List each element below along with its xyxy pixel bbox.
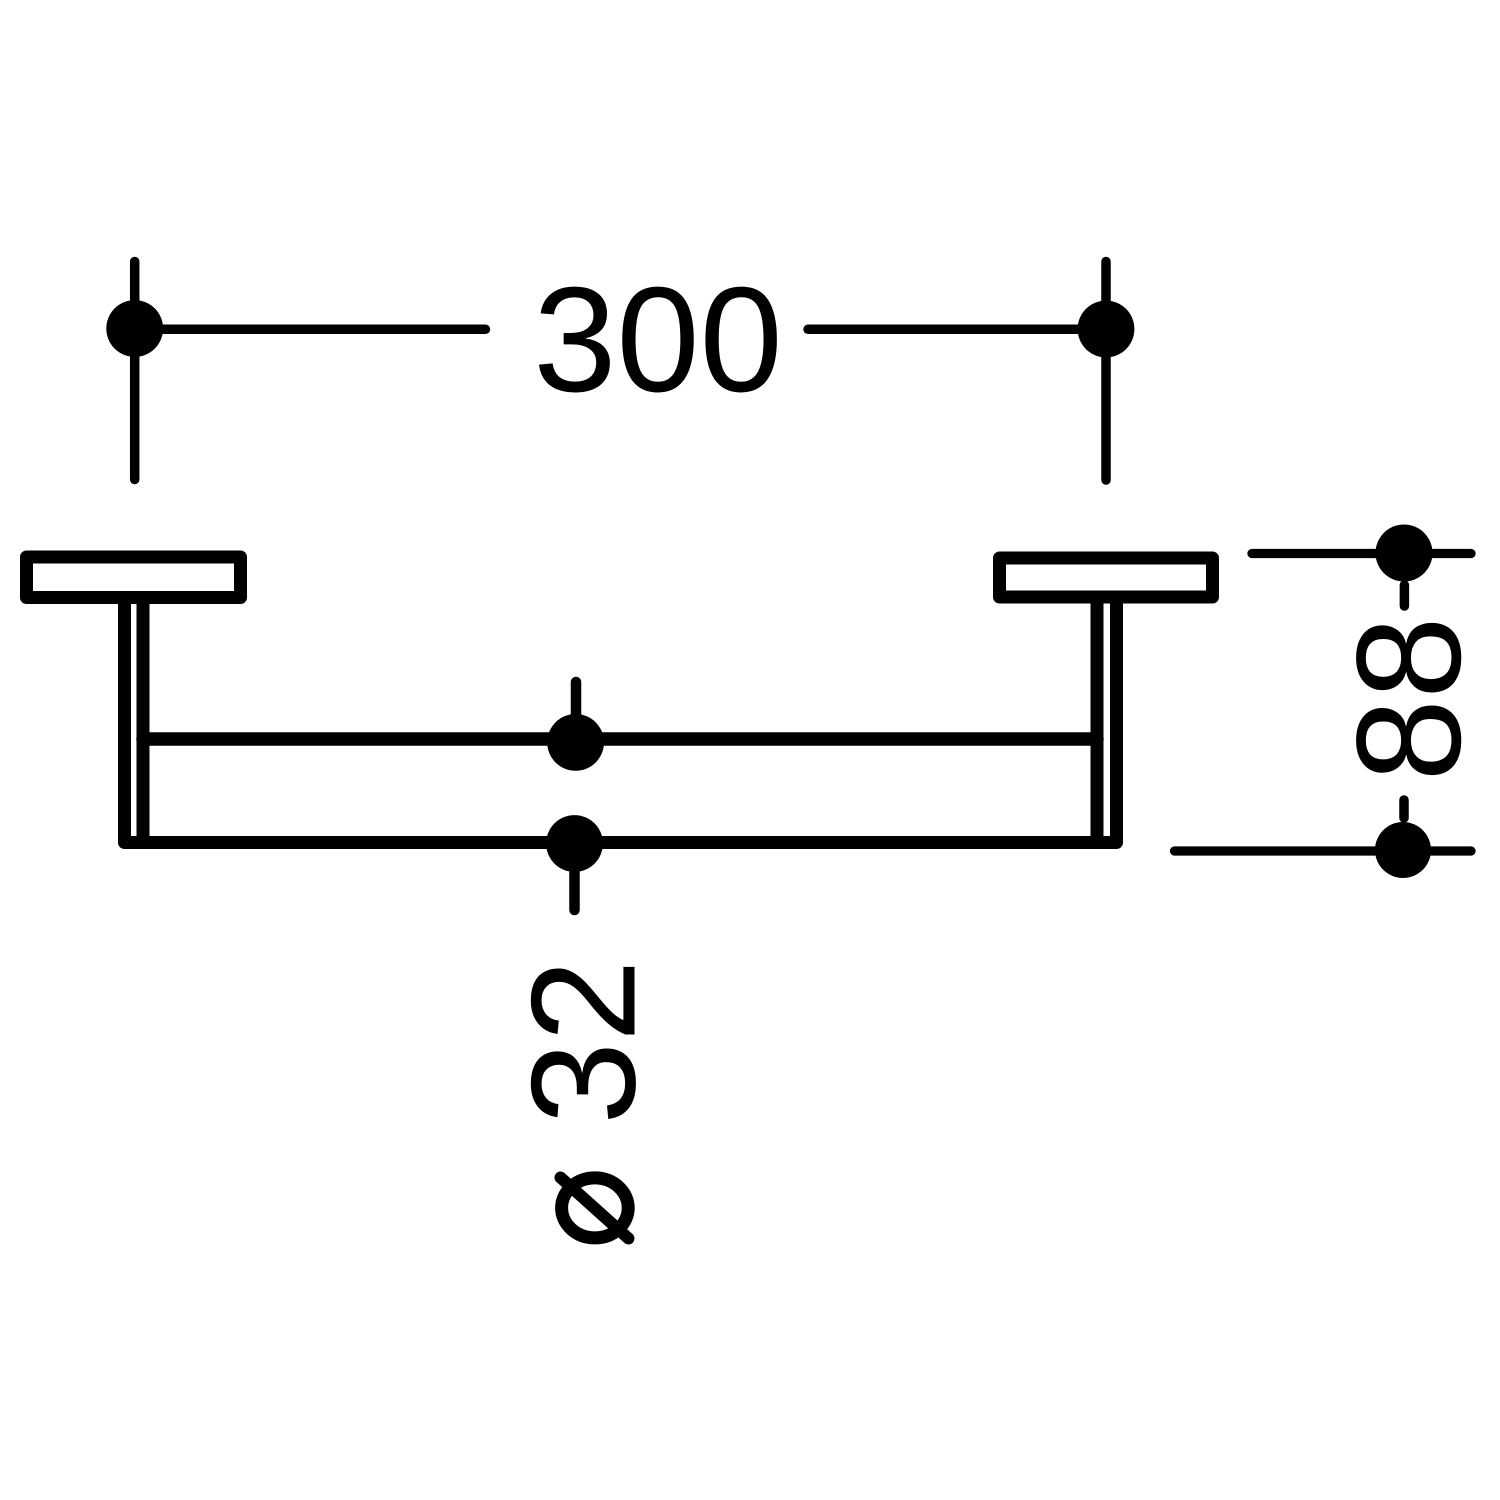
centerline tick below rail bbox=[569, 844, 580, 910]
dimension 88: bottom extension line bbox=[1175, 846, 1472, 855]
diameter symbol slash bbox=[561, 1178, 629, 1239]
left stem inner line bbox=[137, 601, 150, 843]
rail axis dot lower bbox=[546, 815, 603, 872]
svg-text:300: 300 bbox=[533, 256, 782, 423]
dimension 88: dimension line upper segment bbox=[1400, 585, 1410, 606]
centerline tick above rail bbox=[571, 682, 582, 742]
left wall plate bbox=[27, 557, 241, 598]
right wall plate bbox=[1000, 558, 1213, 597]
dimension 88: top extension line bbox=[1252, 549, 1471, 558]
svg-text:88: 88 bbox=[1327, 616, 1492, 781]
rail axis dot upper bbox=[547, 714, 604, 771]
dimension 88: bottom terminator dot bbox=[1375, 822, 1431, 878]
dimension 300: dimension line right segment bbox=[808, 325, 1106, 335]
rail top line bbox=[143, 732, 1097, 746]
dimension 300: dimension line left segment bbox=[135, 325, 486, 335]
bracket outline: left stem outer line + rail bottom line + right stem outer line bbox=[125, 601, 1117, 843]
dimension 300: left terminator dot bbox=[106, 300, 163, 357]
diameter symbol ring bbox=[562, 1178, 629, 1238]
dimension 300: left extension line bbox=[130, 262, 140, 480]
right stem inner line bbox=[1091, 601, 1104, 843]
dimension 88: top terminator dot bbox=[1376, 525, 1433, 582]
svg-text:32: 32 bbox=[502, 959, 667, 1124]
dimension 300: right extension line bbox=[1101, 262, 1111, 481]
dimension 88: dimension line lower segment bbox=[1399, 800, 1409, 818]
dimension 300: right terminator dot bbox=[1078, 301, 1135, 358]
